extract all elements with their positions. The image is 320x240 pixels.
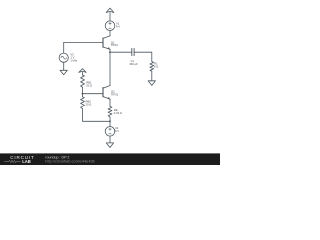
label Q2 bbox=[111, 90, 119, 97]
CircuitLab logo wordmark bbox=[4, 155, 34, 164]
voltage source V1 bbox=[105, 21, 115, 31]
svg-text:http://circuitlab.com/c44e43b: http://circuitlab.com/c44e43b bbox=[45, 159, 95, 164]
wire Q1 base from V3 bbox=[64, 41, 103, 43]
wire RE to V2 node bbox=[109, 117, 111, 121]
transistor Q2 bbox=[103, 86, 110, 100]
svg-text:8 V: 8 V bbox=[115, 129, 119, 133]
resistor RL bbox=[150, 62, 154, 72]
label RL bbox=[154, 62, 158, 69]
label V1 bbox=[116, 22, 120, 29]
label Q1 bbox=[111, 40, 119, 47]
wire node to V2 bbox=[109, 121, 111, 126]
wire C1 to RL corner bbox=[134, 52, 152, 61]
wire base node to Q2 base bbox=[83, 93, 104, 95]
wire emitter node to C1 bbox=[110, 51, 132, 53]
wire V3 riser bbox=[63, 42, 65, 53]
footer bar bbox=[0, 153, 220, 165]
svg-text:LAB: LAB bbox=[22, 159, 31, 164]
wire main column emitter node to Q2 collector bbox=[109, 52, 111, 85]
wire Q1 emitter down bbox=[109, 49, 111, 52]
label RB2 bbox=[86, 99, 92, 106]
node junction (base divider) bbox=[82, 93, 84, 95]
capacitor C1 bbox=[132, 48, 134, 55]
svg-text:330 µF: 330 µF bbox=[129, 62, 138, 66]
label RE bbox=[114, 108, 122, 115]
svg-text:TIP31: TIP31 bbox=[111, 43, 119, 47]
label RB1 bbox=[86, 80, 92, 87]
wire RB1 to base node bbox=[82, 87, 84, 93]
power flag (above RB1) bbox=[79, 69, 86, 75]
wire V2 to ground bbox=[109, 136, 111, 143]
svg-text:0.33 Ω: 0.33 Ω bbox=[114, 111, 122, 115]
resistor RB1 bbox=[81, 75, 85, 87]
sine source V3 bbox=[59, 53, 68, 62]
ground (V2) bbox=[106, 143, 113, 148]
resistor RE bbox=[108, 106, 112, 117]
wire V3 to ground bbox=[63, 62, 65, 70]
svg-text:20 Ω: 20 Ω bbox=[86, 103, 92, 107]
ground (V3) bbox=[60, 70, 67, 74]
label V3 bbox=[70, 52, 78, 62]
wire V1 to Q1 collector bbox=[109, 31, 111, 37]
svg-text:TIP31: TIP31 bbox=[111, 92, 119, 96]
node junction (Q1 emitter) bbox=[109, 51, 111, 53]
svg-text:20 Ω: 20 Ω bbox=[86, 84, 92, 88]
wire RL to ground bbox=[151, 71, 153, 81]
label V2 bbox=[115, 126, 119, 133]
wire Q2 emitter to RE bbox=[109, 99, 111, 106]
svg-text:8 V: 8 V bbox=[116, 25, 120, 29]
power flag (top supply arrow) bbox=[106, 8, 114, 21]
voltage source V2 bbox=[105, 127, 115, 137]
label C1 bbox=[129, 59, 138, 66]
node junction (V2 top) bbox=[109, 120, 111, 122]
svg-text:1 kHz: 1 kHz bbox=[70, 58, 78, 62]
svg-text:8 Ω: 8 Ω bbox=[154, 65, 158, 69]
transistor Q1 bbox=[103, 36, 110, 49]
resistor RB2 bbox=[81, 97, 85, 109]
wire RB2 down and right to V2 node bbox=[83, 94, 111, 122]
ground (RL) bbox=[148, 81, 155, 86]
